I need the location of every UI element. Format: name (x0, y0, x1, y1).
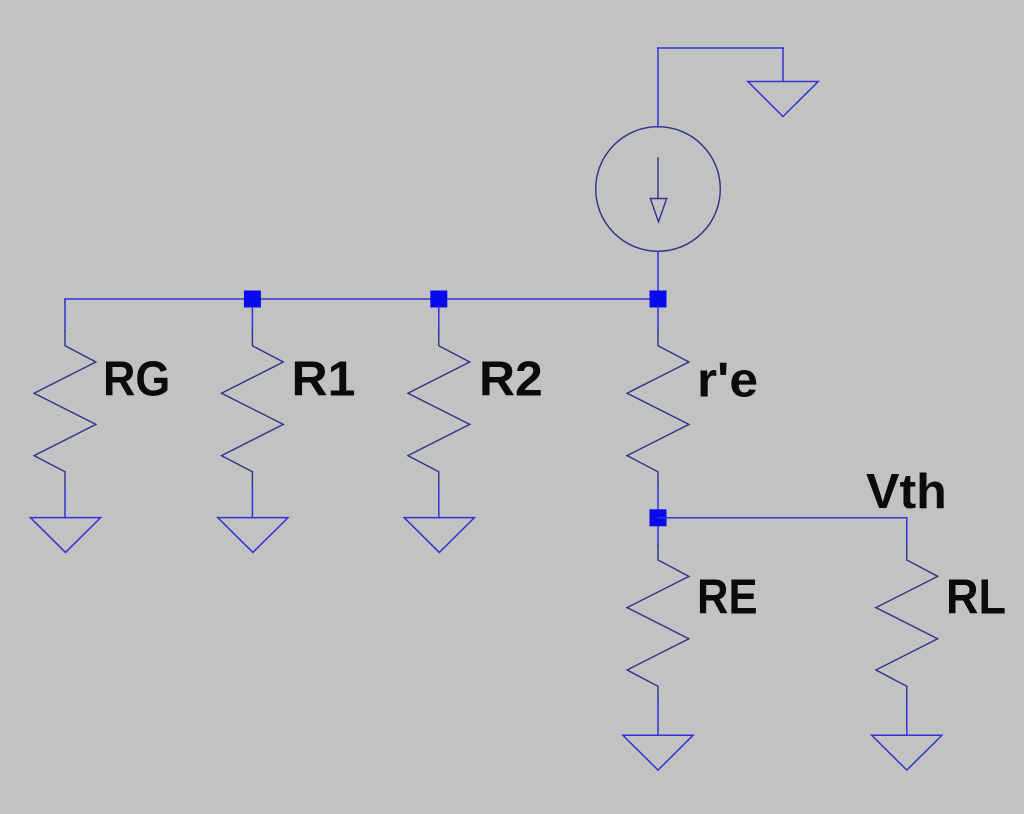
wire (658, 517, 907, 519)
wire (657, 48, 659, 127)
wire (657, 307, 659, 331)
wire (65, 298, 658, 300)
ground (623, 735, 693, 770)
junction node (244, 291, 261, 308)
junction node (650, 291, 667, 308)
resistor RG (34, 331, 96, 487)
wire (251, 487, 253, 518)
ground (218, 518, 288, 553)
wire (658, 47, 783, 49)
junction node (650, 509, 667, 526)
ground (30, 518, 100, 553)
ground (748, 82, 818, 117)
wire (782, 48, 784, 82)
svg-text:RE: RE (697, 571, 758, 625)
resistor RE (627, 545, 689, 701)
svg-text:R1: R1 (292, 353, 356, 407)
wire (657, 701, 659, 735)
wire (438, 487, 440, 518)
ground (404, 518, 474, 553)
wire (657, 487, 659, 513)
current source I1 (596, 127, 721, 252)
svg-text:RG: RG (103, 353, 170, 407)
wire (251, 307, 253, 331)
wire (657, 526, 659, 545)
junction node (430, 291, 447, 308)
wire (438, 307, 440, 331)
wire (906, 518, 908, 545)
resistor RL (876, 545, 938, 701)
wire (657, 251, 659, 299)
ground (872, 735, 942, 770)
resistor r'e (627, 331, 689, 487)
svg-text:Vth: Vth (866, 465, 947, 519)
wire (64, 299, 66, 331)
svg-text:RL: RL (946, 571, 1006, 625)
resistor R1 (222, 331, 284, 487)
wire (906, 701, 908, 735)
wire (64, 487, 66, 518)
svg-text:R2: R2 (479, 353, 543, 407)
resistor R2 (408, 331, 470, 487)
svg-text:r'e: r'e (697, 354, 758, 408)
